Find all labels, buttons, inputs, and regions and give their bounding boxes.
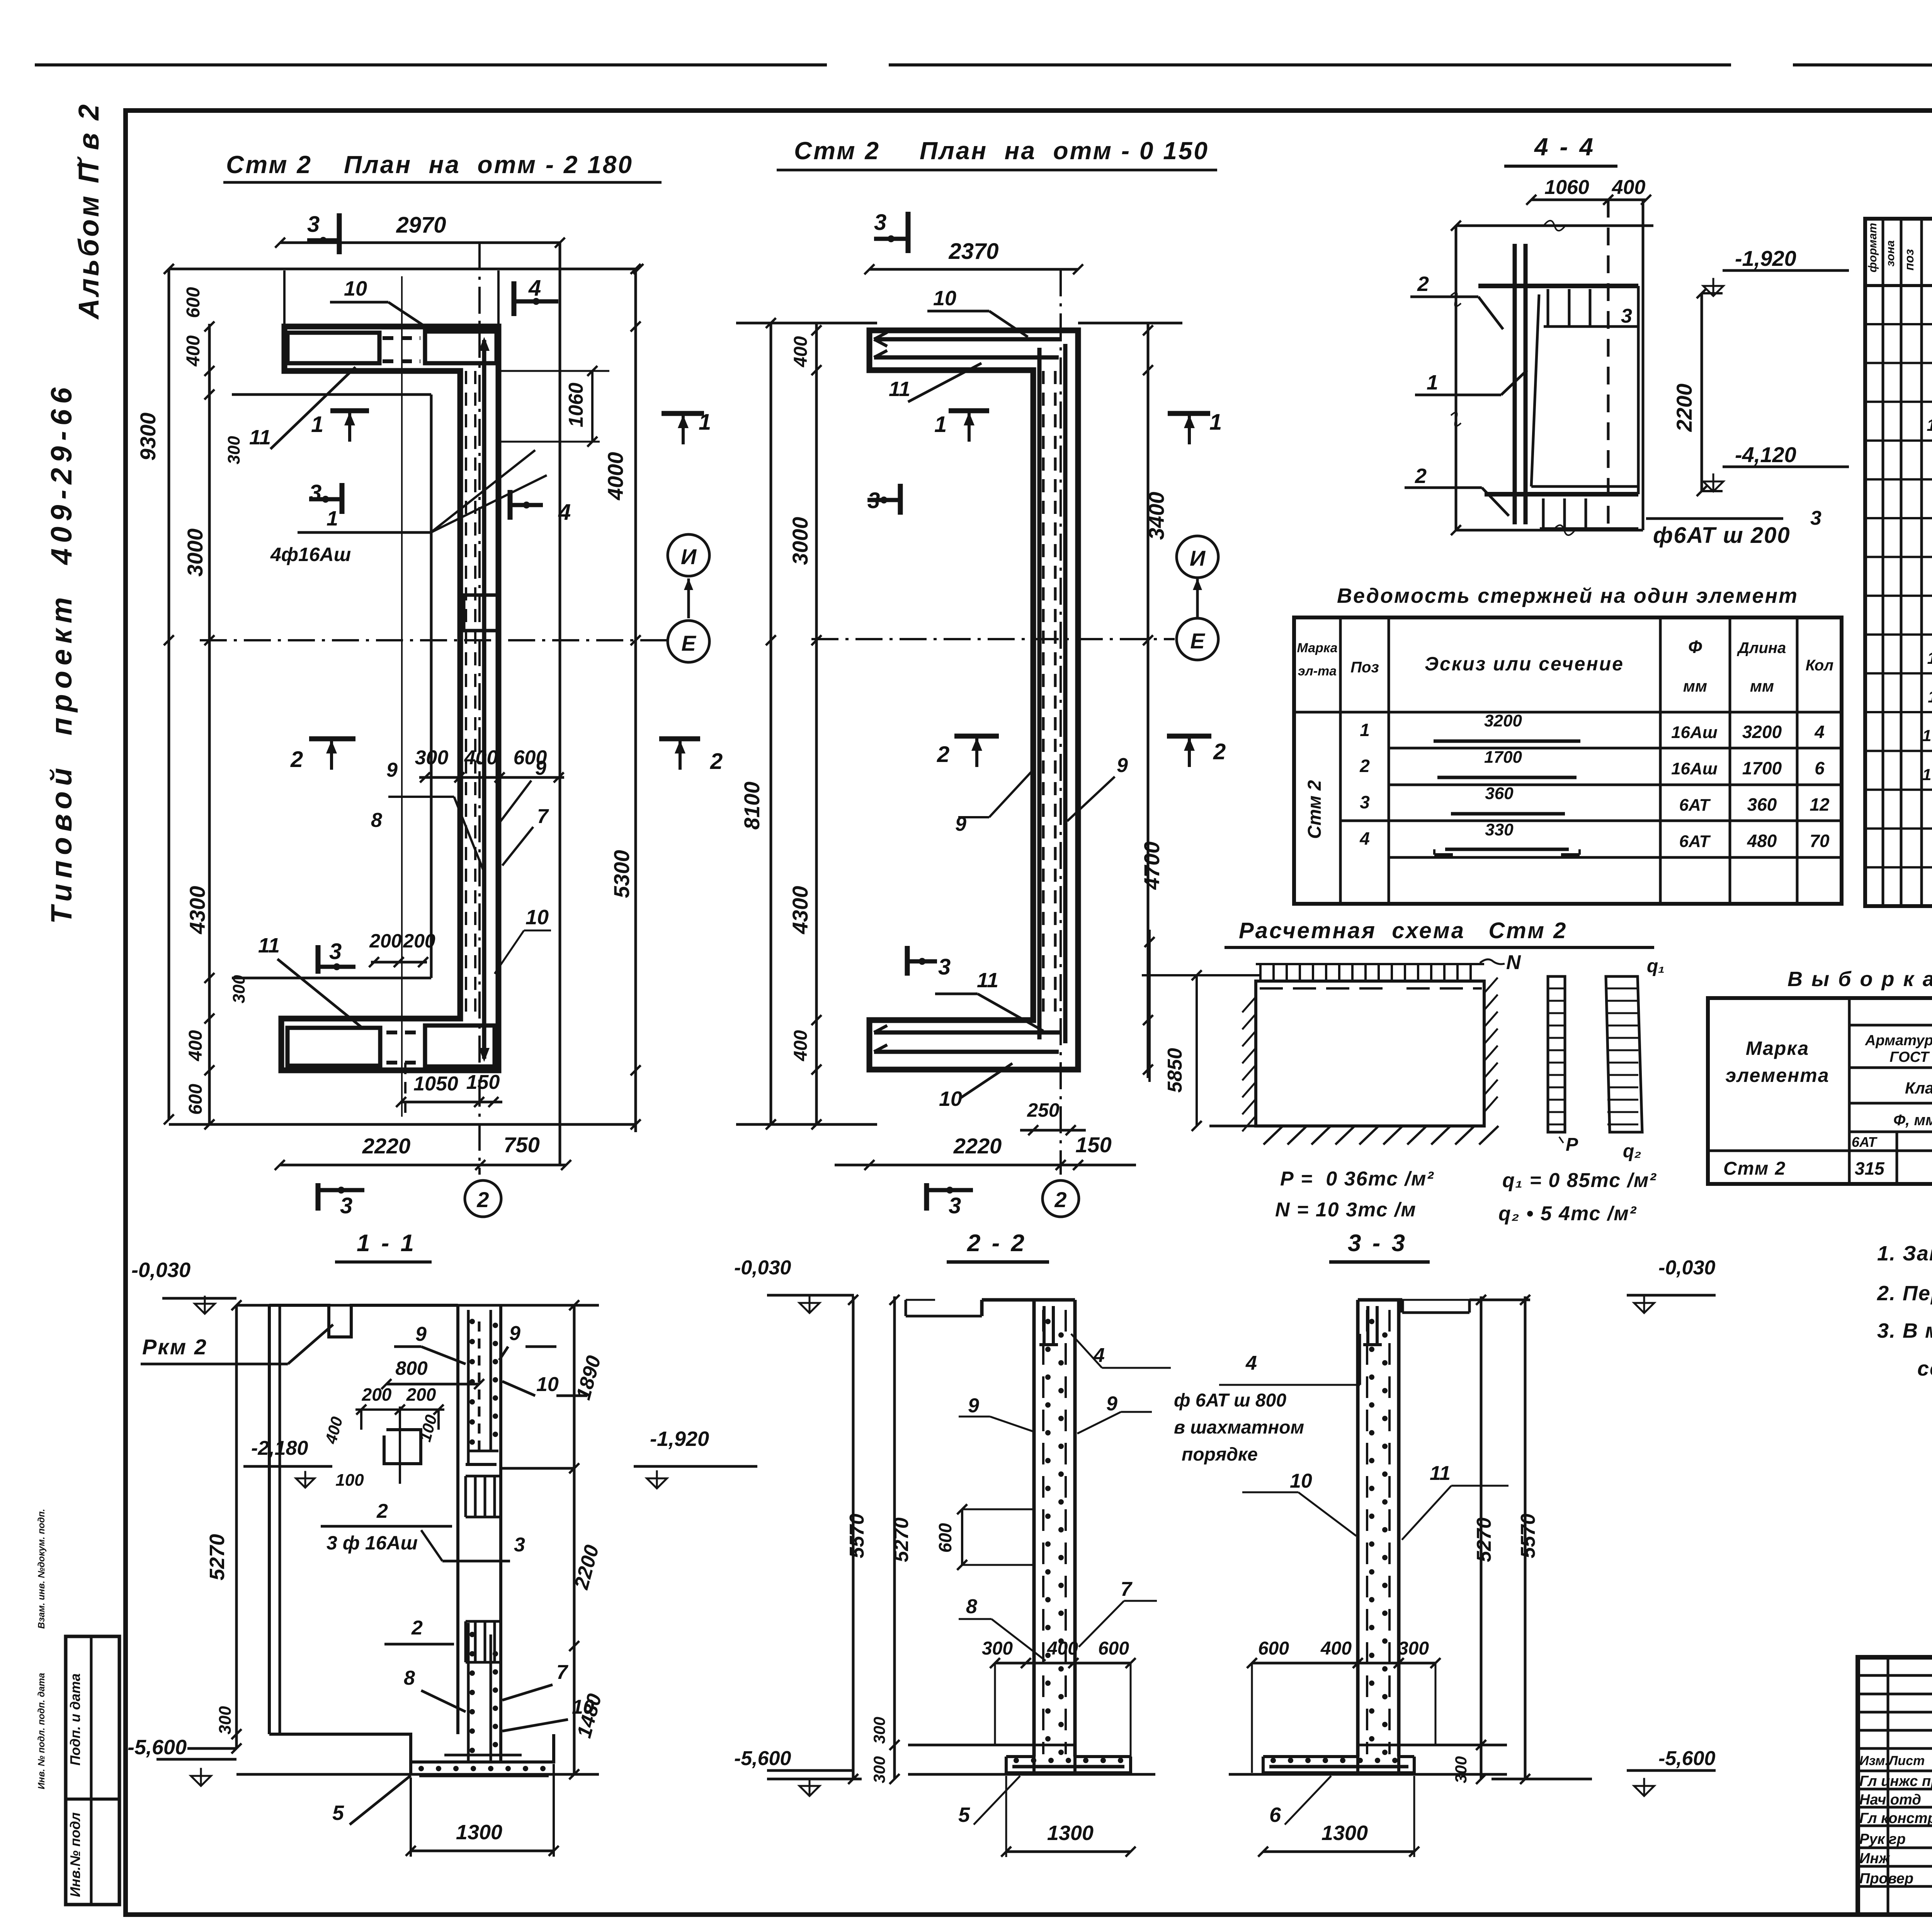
svg-text:3000: 3000 <box>183 529 207 577</box>
svg-text:Взам. инв. №докум. подп.: Взам. инв. №докум. подп. <box>36 1509 47 1629</box>
svg-text:2370: 2370 <box>948 239 998 264</box>
svg-text:100: 100 <box>335 1471 364 1490</box>
sec33 wall <box>1356 1300 1360 1757</box>
sec11 upper rebar foot <box>466 1463 497 1466</box>
sheet top trim line <box>35 63 827 66</box>
svg-text:1: 1 <box>311 412 323 437</box>
svg-text:1300: 1300 <box>1321 1821 1368 1845</box>
svg-text:6АТ: 6АТ <box>1852 1134 1878 1150</box>
svg-text:3: 3 <box>329 939 342 964</box>
svg-text:Стм 2: Стм 2 <box>226 151 312 179</box>
svg-text:10: 10 <box>939 1087 962 1111</box>
sec33 bottom line <box>1229 1773 1507 1776</box>
sec11 top line <box>236 1304 599 1307</box>
svg-text:7: 7 <box>537 805 549 828</box>
detail44 top extent line <box>1456 224 1653 227</box>
svg-text:11: 11 <box>258 934 280 957</box>
plan2 wall outline <box>869 330 1078 1070</box>
svg-text:3400: 3400 <box>1144 492 1168 540</box>
plan2 leg dashed bars <box>1042 371 1045 1012</box>
svg-text:5270: 5270 <box>890 1517 913 1562</box>
svg-text:6АТ: 6АТ <box>1679 796 1711 815</box>
plan2 left dim verticals <box>770 323 772 1124</box>
sec22 bottom line <box>908 1773 1155 1776</box>
titleblock header row <box>1858 1770 1932 1772</box>
svg-text:Е: Е <box>681 631 696 655</box>
svg-text:формат: формат <box>1866 223 1879 272</box>
svg-text:2. Перекрытие РКМ 2 смо: 2. Перекрытие РКМ 2 смотрите на листе кж… <box>1877 1282 1932 1305</box>
svg-text:16Аш: 16Аш <box>1671 723 1718 742</box>
svg-text:q₂ • 5 4тс /м²: q₂ • 5 4тс /м² <box>1498 1202 1637 1225</box>
plan2 rebar bottom bars <box>874 1031 1062 1035</box>
svg-text:6: 6 <box>1269 1803 1281 1827</box>
svg-text:2: 2 <box>476 1187 489 1212</box>
svg-text:Инв.№ подл: Инв.№ подл <box>67 1812 83 1897</box>
svg-text:5270: 5270 <box>206 1534 229 1580</box>
svg-text:150: 150 <box>466 1071 500 1094</box>
detail44 wall inner faces <box>1531 294 1539 486</box>
svg-text:q₁: q₁ <box>1647 956 1665 976</box>
svg-text:9: 9 <box>509 1322 520 1345</box>
svg-text:Кол: Кол <box>1806 657 1834 674</box>
plan1 rebar mesh bottom right <box>425 1026 495 1066</box>
svg-text:Инж: Инж <box>1859 1850 1890 1867</box>
svg-text:зона: зона <box>1884 240 1897 267</box>
sec11 wall verticals <box>456 1305 459 1734</box>
sec22 dim verticals left <box>852 1296 855 1779</box>
plan2 axis 2 line <box>1060 269 1062 1175</box>
detail44 axis dashed <box>1607 200 1610 530</box>
svg-text:2: 2 <box>376 1500 388 1522</box>
svg-text:3: 3 <box>1810 507 1821 529</box>
vyborka horizontals <box>1849 1024 1932 1027</box>
svg-text:6АТ: 6АТ <box>1679 832 1711 851</box>
vedomost table frame <box>1294 617 1842 904</box>
svg-text:Ркм 2: Ркм 2 <box>142 1335 207 1359</box>
svg-text:q₂: q₂ <box>1623 1141 1641 1162</box>
sec11 bottom line <box>187 1747 236 1750</box>
plan1 right dim vertical 4000 5300 <box>634 269 637 1132</box>
svg-text:3 - 3: 3 - 3 <box>1348 1230 1407 1257</box>
plan2 top dim line 2370 <box>869 268 1078 271</box>
svg-text:Поз: Поз <box>1350 659 1379 676</box>
svg-text:400: 400 <box>185 1030 206 1061</box>
sec11 footing rebar <box>419 1774 549 1777</box>
svg-text:Расчетная схема Стм 2: Расчетная схема Стм 2 <box>1239 918 1567 943</box>
schema P bar <box>1548 976 1565 1132</box>
svg-text:5570: 5570 <box>1517 1514 1539 1558</box>
svg-text:2: 2 <box>1213 739 1226 764</box>
sec33 footing rebar <box>1269 1765 1408 1769</box>
svg-text:400: 400 <box>791 1030 811 1061</box>
svg-text:1060: 1060 <box>565 383 587 427</box>
svg-text:1050: 1050 <box>413 1073 458 1095</box>
svg-text:3: 3 <box>307 212 320 237</box>
svg-text:поз: поз <box>1902 249 1916 270</box>
svg-text:9: 9 <box>968 1395 979 1417</box>
plan1 axis circles I E <box>668 534 709 576</box>
left stamp box <box>66 1636 119 1905</box>
sec33 wall rebar dashed <box>1366 1310 1368 1754</box>
detail44 bottom slab <box>1485 492 1638 497</box>
svg-text:3: 3 <box>340 1193 352 1218</box>
svg-text:10: 10 <box>1290 1470 1312 1492</box>
detail44 left dim vertical <box>1455 226 1458 530</box>
svg-text:9: 9 <box>1106 1393 1117 1415</box>
svg-text:8: 8 <box>404 1667 415 1689</box>
plan2 axis circle 2 <box>1043 1180 1079 1217</box>
svg-text:P = 0 36тс /м²: P = 0 36тс /м² <box>1280 1168 1434 1190</box>
detail44 bottom hatch block <box>1542 498 1545 529</box>
svg-text:400: 400 <box>1320 1638 1352 1659</box>
sec33 footing <box>1358 1744 1507 1747</box>
svg-text:Типовой проект 409-29-66: Типовой проект 409-29-66 <box>45 382 78 924</box>
svg-text:16Аш: 16Аш <box>1671 759 1718 778</box>
svg-text:3: 3 <box>1360 792 1370 812</box>
spec table columns <box>1882 219 1884 906</box>
svg-text:6: 6 <box>1815 758 1825 778</box>
schema wall rect <box>1256 981 1484 1126</box>
svg-text:План на отм - 0 150: План на отм - 0 150 <box>920 137 1209 165</box>
schema dim 5850 <box>1196 975 1198 1126</box>
sec33 top slab <box>1358 1298 1402 1302</box>
svg-text:1: 1 <box>934 412 947 437</box>
plan1 inner boundary lines <box>232 393 431 396</box>
vedomost header row line <box>1294 711 1842 714</box>
svg-text:-4,120: -4,120 <box>1735 442 1796 467</box>
svg-text:150: 150 <box>1075 1133 1111 1157</box>
plan2 rebar vertical bars <box>1037 348 1042 1039</box>
svg-text:2: 2 <box>411 1617 423 1639</box>
svg-text:3: 3 <box>874 210 886 235</box>
detail44 wall double line <box>1513 244 1517 524</box>
titleblock name rows <box>1858 1788 1932 1791</box>
svg-text:1 - 1: 1 - 1 <box>357 1230 416 1257</box>
svg-text:1: 1 <box>327 507 338 530</box>
svg-text:3: 3 <box>514 1534 525 1556</box>
svg-text:5270: 5270 <box>1473 1517 1495 1562</box>
svg-text:-5,600: -5,600 <box>734 1747 791 1770</box>
svg-text:70: 70 <box>1810 831 1830 851</box>
svg-text:Ф, мм: Ф, мм <box>1893 1112 1932 1129</box>
sec22 wall <box>1032 1300 1036 1757</box>
svg-text:600: 600 <box>183 287 204 318</box>
svg-text:100: 100 <box>1922 726 1932 745</box>
plan1 dim line vertical left <box>208 324 211 1124</box>
svg-text:400: 400 <box>183 335 204 367</box>
schema top load hatch <box>1256 963 1484 965</box>
svg-text:1700: 1700 <box>1484 748 1522 767</box>
sec22 top anchor <box>1043 1306 1046 1345</box>
svg-text:Подп. и дата: Подп. и дата <box>67 1673 83 1765</box>
plan1 dim line vertical far left 9300 <box>168 269 170 1119</box>
svg-text:300: 300 <box>1398 1638 1429 1659</box>
sec11 wall rebar lower <box>467 1623 470 1762</box>
svg-text:P: P <box>1566 1134 1578 1155</box>
sec11 anchor hatch top <box>464 1476 467 1517</box>
svg-text:1700: 1700 <box>1742 758 1782 778</box>
svg-text:Ф: Ф <box>1688 637 1702 657</box>
plan1 rebar mesh bottom left <box>287 1028 380 1066</box>
sec33 dim verticals right <box>1480 1296 1483 1779</box>
plan1 wall outline <box>281 327 498 1070</box>
svg-text:750: 750 <box>503 1133 539 1157</box>
svg-text:300: 300 <box>1452 1756 1470 1783</box>
svg-text:7: 7 <box>556 1661 568 1684</box>
svg-text:4000: 4000 <box>603 452 628 501</box>
svg-text:сеток вырезать по м: сеток вырезать по месту. <box>1917 1357 1932 1380</box>
svg-text:480: 480 <box>1747 831 1777 851</box>
svg-text:3: 3 <box>938 954 951 980</box>
svg-text:Стм 2: Стм 2 <box>1304 780 1325 839</box>
svg-text:3: 3 <box>1621 305 1632 327</box>
svg-text:4: 4 <box>1359 828 1370 849</box>
svg-text:q₁ = 0 85тс /м²: q₁ = 0 85тс /м² <box>1502 1169 1657 1192</box>
svg-text:400: 400 <box>464 747 498 769</box>
svg-text:2220: 2220 <box>362 1134 411 1158</box>
svg-text:4300: 4300 <box>788 886 812 935</box>
sec22 dim 600 mid <box>961 1509 963 1565</box>
svg-text:600: 600 <box>1098 1638 1129 1659</box>
plan1 axis E line <box>200 639 668 641</box>
sec11 wall left outline <box>268 1305 271 1734</box>
svg-text:11: 11 <box>889 378 910 401</box>
svg-text:1300: 1300 <box>456 1821 502 1844</box>
svg-text:Е: Е <box>1190 629 1205 653</box>
svg-text:Провер: Провер <box>1859 1871 1913 1887</box>
svg-text:Гл инжс пр: Гл инжс пр <box>1859 1773 1932 1789</box>
svg-text:400: 400 <box>791 336 811 367</box>
svg-text:360: 360 <box>1747 794 1777 815</box>
svg-text:2: 2 <box>290 747 303 772</box>
svg-text:200: 200 <box>362 1384 392 1405</box>
svg-text:300: 300 <box>982 1638 1013 1659</box>
svg-text:8: 8 <box>966 1595 977 1618</box>
svg-text:4700: 4700 <box>1139 842 1164 890</box>
svg-text:600: 600 <box>935 1523 955 1553</box>
svg-text:Инв. № подл. подп. дата: Инв. № подл. подп. дата <box>36 1673 47 1789</box>
svg-text:Арматурная сталь: Арматурная сталь <box>1865 1032 1932 1049</box>
vedomost row lines <box>1389 747 1842 750</box>
spec header bottom <box>1865 284 1932 287</box>
schema ground hatch <box>1209 1125 1484 1128</box>
svg-text:4300: 4300 <box>185 886 209 935</box>
plan1 top tick line <box>169 268 638 270</box>
plan2 right dim vertical <box>1147 323 1150 1078</box>
svg-text:1: 1 <box>1209 410 1222 435</box>
plan1 leg dashed bars <box>465 371 467 1016</box>
svg-text:250: 250 <box>1027 1099 1060 1121</box>
plan2 axis circles N E <box>1177 536 1218 578</box>
svg-text:200: 200 <box>369 930 402 952</box>
svg-text:N = 10 3тс /м: N = 10 3тс /м <box>1275 1199 1417 1221</box>
svg-text:Нач отд: Нач отд <box>1859 1792 1921 1808</box>
plan1 axis 2 line <box>478 243 481 1175</box>
svg-text:5570: 5570 <box>846 1514 868 1558</box>
svg-text:9: 9 <box>1117 754 1128 777</box>
detail44 top slab <box>1478 284 1638 288</box>
svg-text:12: 12 <box>1810 794 1830 815</box>
svg-text:мм: мм <box>1683 677 1707 695</box>
spec table frame <box>1865 219 1932 906</box>
svg-text:Гл констр: Гл констр <box>1859 1810 1932 1827</box>
svg-text:800: 800 <box>395 1357 428 1379</box>
svg-text:315: 315 <box>1855 1158 1885 1179</box>
svg-text:Ведомость стержней на один эле: Ведомость стержней на один элемент <box>1337 584 1798 607</box>
svg-text:И: И <box>1190 546 1206 570</box>
svg-text:порядке: порядке <box>1182 1444 1258 1465</box>
svg-text:5850: 5850 <box>1164 1048 1186 1093</box>
svg-text:2: 2 <box>1054 1187 1066 1212</box>
sec11 top notch rkm2 <box>269 1305 458 1337</box>
schema right hatch <box>1484 978 1498 993</box>
titleblock left stamp upper rows <box>1858 1674 1932 1677</box>
svg-text:3: 3 <box>309 480 321 505</box>
svg-text:300: 300 <box>415 747 449 769</box>
plan1 right dim vertical 1060 <box>559 243 561 1165</box>
svg-text:4: 4 <box>528 276 541 301</box>
svg-text:9: 9 <box>386 759 398 781</box>
svg-text:мм: мм <box>1750 677 1774 695</box>
svg-text:2200: 2200 <box>1672 384 1696 432</box>
svg-text:1: 1 <box>1360 720 1370 740</box>
svg-text:330: 330 <box>1485 820 1514 839</box>
titleblock outer frame <box>1858 1657 1932 1915</box>
svg-text:300: 300 <box>870 1717 888 1744</box>
sec11 footing <box>269 1734 554 1762</box>
svg-text:9: 9 <box>415 1323 427 1345</box>
svg-text:2: 2 <box>1415 464 1427 488</box>
svg-text:1060: 1060 <box>1544 176 1589 199</box>
svg-text:В ы б о р к а с т а л и: В ы б о р к а с т а л и н а о д и н э л … <box>1787 968 1932 991</box>
titleblock vertical dividers left stamp <box>1887 1657 1889 1915</box>
svg-text:N: N <box>1506 951 1521 974</box>
svg-text:600: 600 <box>185 1084 206 1115</box>
svg-text:-0,030: -0,030 <box>734 1257 791 1279</box>
svg-text:8100: 8100 <box>740 782 764 830</box>
svg-text:Эскиз или сечение: Эскиз или сечение <box>1425 653 1624 675</box>
svg-text:И: И <box>681 544 697 569</box>
svg-text:10: 10 <box>933 287 956 310</box>
svg-text:300: 300 <box>870 1756 888 1783</box>
svg-text:Марка: Марка <box>1297 641 1338 655</box>
svg-text:11: 11 <box>1430 1462 1451 1485</box>
svg-text:3: 3 <box>949 1193 961 1218</box>
svg-text:5: 5 <box>958 1803 970 1827</box>
sec11 anchor hatch bottom <box>464 1621 467 1662</box>
svg-text:2970: 2970 <box>396 213 446 238</box>
detail44 right dim vertical <box>1642 200 1645 530</box>
svg-text:эл-та: эл-та <box>1298 664 1337 679</box>
svg-text:Класс А-I: Класс А-I <box>1905 1079 1932 1097</box>
plan2 rebar top bars <box>874 337 1062 342</box>
svg-text:600: 600 <box>1258 1638 1289 1659</box>
svg-text:ф6АТ ш 200: ф6АТ ш 200 <box>1653 523 1791 548</box>
svg-text:-0,030: -0,030 <box>1658 1257 1716 1279</box>
svg-text:4: 4 <box>1814 722 1825 742</box>
svg-text:4: 4 <box>1245 1352 1257 1374</box>
svg-text:в шахматном: в шахматном <box>1174 1417 1304 1438</box>
svg-text:3. В местах технологических: 3. В местах технологических отверстий ар… <box>1877 1319 1932 1342</box>
sec11 right dim vertical <box>573 1305 576 1774</box>
plan1 axis circle 2 <box>465 1180 501 1217</box>
svg-text:3200: 3200 <box>1484 711 1522 730</box>
svg-text:9300: 9300 <box>136 413 160 461</box>
svg-text:1: 1 <box>1427 371 1438 394</box>
plan1 rebar mesh top right <box>425 332 497 363</box>
svg-text:ф 6АТ ш 800: ф 6АТ ш 800 <box>1174 1390 1286 1411</box>
svg-text:8: 8 <box>371 809 382 832</box>
plan1 top dim line 2970 <box>280 241 560 244</box>
svg-text:101: 101 <box>1922 765 1932 784</box>
svg-text:11: 11 <box>1928 687 1932 706</box>
svg-text:300: 300 <box>224 436 243 464</box>
svg-text:Альбом П̆ в 2: Альбом П̆ в 2 <box>73 102 105 320</box>
plan1 bottom dim line <box>169 1123 636 1126</box>
schema q bar <box>1606 976 1642 1132</box>
svg-text:600: 600 <box>514 747 547 769</box>
svg-text:-5,600: -5,600 <box>128 1736 187 1759</box>
svg-text:-1,920: -1,920 <box>650 1427 709 1451</box>
svg-text:2: 2 <box>1417 272 1429 296</box>
plan1 leg joint rebar <box>464 595 498 631</box>
svg-text:3000: 3000 <box>788 517 812 565</box>
sec22 footing rebar <box>1012 1765 1124 1769</box>
svg-text:360: 360 <box>1485 784 1514 803</box>
svg-text:-1,920: -1,920 <box>1735 246 1796 270</box>
detail44 bottom extent line <box>1456 529 1643 532</box>
svg-text:элемента: элемента <box>1725 1065 1829 1086</box>
svg-text:Рук гр: Рук гр <box>1859 1831 1906 1847</box>
svg-text:2: 2 <box>710 749 723 774</box>
spec row lines <box>1865 323 1932 325</box>
svg-text:ГОСТ 5781 75: ГОСТ 5781 75 <box>1889 1049 1932 1065</box>
sec11 wall rebar upper <box>467 1310 470 1464</box>
svg-text:10: 10 <box>344 277 367 300</box>
sec22 footing <box>908 1744 1075 1747</box>
svg-text:1. Закладные изделия замарк: 1. Закладные изделия замаркированы на ли… <box>1877 1242 1932 1265</box>
svg-text:300: 300 <box>216 1706 235 1735</box>
svg-text:Марка: Марка <box>1746 1037 1809 1059</box>
svg-text:План на отм - 2 180: План на отм - 2 180 <box>344 151 633 179</box>
sec22 top slab <box>982 1298 1075 1302</box>
vyborka verticals full <box>1848 998 1851 1184</box>
vyborka frame <box>1708 998 1932 1184</box>
svg-text:4: 4 <box>558 500 571 525</box>
svg-text:1300: 1300 <box>1047 1821 1094 1845</box>
svg-text:Стм 2: Стм 2 <box>794 137 880 165</box>
svg-text:1-4: 1-4 <box>1927 416 1932 435</box>
svg-text:400: 400 <box>1047 1638 1078 1659</box>
sec22 wall rebar dashed <box>1042 1310 1044 1754</box>
svg-text:Длина: Длина <box>1737 639 1786 656</box>
svg-text:200: 200 <box>403 930 435 952</box>
svg-text:Изм.Лист: Изм.Лист <box>1859 1753 1925 1768</box>
svg-text:2220: 2220 <box>953 1134 1002 1158</box>
sec11 left dim vertical 5270 <box>235 1305 238 1748</box>
svg-text:11: 11 <box>249 426 271 449</box>
svg-text:3 ф 16Аш: 3 ф 16Аш <box>327 1532 418 1554</box>
plan1 rebar mesh top left <box>287 333 379 363</box>
svg-text:4ф16Аш: 4ф16Аш <box>270 544 351 565</box>
sec33 top anchor <box>1366 1306 1369 1345</box>
plan2 axis E line <box>811 638 1175 640</box>
svg-text:-5,600: -5,600 <box>1658 1747 1716 1770</box>
svg-text:7: 7 <box>1121 1578 1133 1600</box>
svg-text:10: 10 <box>536 1373 559 1396</box>
schema dim 5850 outer line <box>1148 930 1151 1082</box>
svg-text:Стм 2: Стм 2 <box>1723 1158 1786 1179</box>
